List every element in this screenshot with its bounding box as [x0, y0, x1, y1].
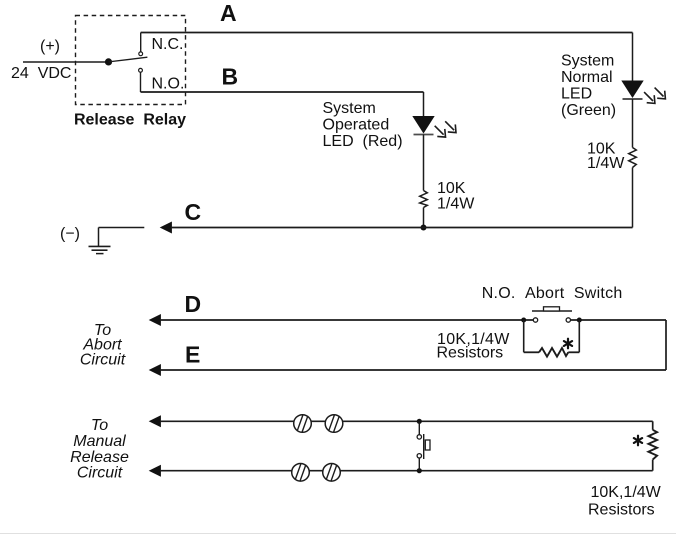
svg-text:B: B: [222, 64, 239, 90]
svg-text:A: A: [220, 0, 237, 26]
svg-text:10K,1/4W: 10K,1/4W: [591, 484, 662, 501]
svg-text:N.O. Abort Switch: N.O. Abort Switch: [482, 285, 623, 302]
svg-text:D: D: [185, 291, 202, 317]
svg-text:Release: Release: [70, 449, 129, 466]
svg-text:1/4W: 1/4W: [587, 155, 625, 172]
svg-text:C: C: [185, 199, 202, 225]
svg-text:Resistors: Resistors: [588, 502, 655, 519]
svg-text:10K: 10K: [437, 180, 466, 197]
svg-text:Resistors: Resistors: [437, 345, 504, 362]
svg-text:N.O.: N.O.: [152, 76, 185, 93]
svg-text:To: To: [91, 417, 108, 434]
svg-text:(+): (+): [40, 38, 60, 55]
svg-text:System: System: [323, 100, 376, 117]
svg-text:LED (Red): LED (Red): [323, 133, 403, 150]
svg-text:Circuit: Circuit: [80, 352, 126, 369]
svg-text:1/4W: 1/4W: [437, 196, 475, 213]
svg-text:LED: LED: [561, 86, 592, 103]
svg-text:Operated: Operated: [323, 117, 390, 134]
svg-text:Release Relay: Release Relay: [74, 112, 186, 129]
svg-text:Circuit: Circuit: [77, 465, 123, 482]
svg-text:Manual: Manual: [73, 433, 126, 450]
svg-text:Normal: Normal: [561, 69, 613, 86]
svg-text:(Green): (Green): [561, 102, 616, 119]
svg-text:24 VDC: 24 VDC: [11, 65, 71, 82]
svg-text:System: System: [561, 53, 614, 70]
svg-text:N.C.: N.C.: [152, 36, 184, 53]
svg-text:(−): (−): [60, 226, 80, 243]
svg-text:E: E: [185, 342, 200, 368]
